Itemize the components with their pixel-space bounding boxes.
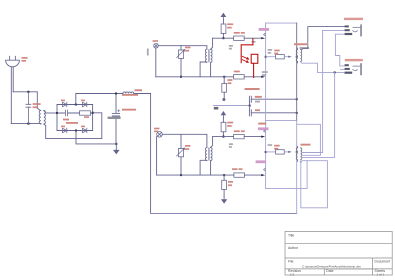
power port up 2 bbox=[221, 112, 225, 118]
transformer T1 bbox=[37, 108, 45, 124]
net label VCC2 bbox=[258, 127, 269, 132]
node caps bbox=[249, 105, 251, 107]
label D2 bbox=[81, 100, 85, 102]
node bridge left bbox=[56, 112, 58, 114]
svg-text:Date: Date bbox=[326, 269, 333, 273]
wire lamp bottom bbox=[155, 48, 157, 77]
wire to R19 bbox=[266, 151, 276, 153]
snubber wire middle bbox=[57, 112, 93, 114]
label R5 bbox=[185, 47, 191, 52]
node T5 feed bbox=[296, 151, 298, 153]
wire Bplus bottom run bbox=[151, 213, 297, 215]
label B1 bbox=[63, 119, 78, 124]
wire T2 prim bottom bbox=[200, 62, 207, 77]
potentiometer R5 bbox=[177, 50, 185, 59]
wire plug neutral down bbox=[12, 67, 14, 92]
wire to R18 bbox=[266, 56, 276, 58]
label R12 bbox=[234, 71, 240, 73]
capacitor C3 snubber bbox=[66, 110, 68, 116]
svg-text:C:\projects\Designs\FishAmp\fi: C:\projects\Designs\FishAmp\fishchamp.ds… bbox=[302, 264, 361, 268]
wire T2 sec top bbox=[211, 38, 213, 49]
wire jack1 tip bbox=[302, 27, 345, 50]
ground GND1 bbox=[114, 144, 119, 154]
inductor L1 bbox=[123, 92, 134, 94]
wire jack2 ring stub bbox=[341, 68, 345, 70]
svg-text:Author: Author bbox=[288, 246, 299, 250]
bridge right rail bbox=[92, 105, 94, 131]
wire R15 to port bbox=[244, 136, 261, 138]
label R2 bbox=[84, 116, 89, 118]
wire lamp2 to transformer bbox=[162, 134, 207, 147]
svg-text:1.0: 1.0 bbox=[290, 272, 295, 276]
node T4 feed bbox=[296, 56, 298, 58]
wire pot bottom bbox=[180, 58, 182, 76]
label C2 bbox=[33, 103, 41, 108]
Bplus right vertical dark bbox=[296, 23, 298, 120]
label R15 bbox=[234, 130, 245, 132]
label R13 bbox=[227, 79, 232, 84]
node top row bbox=[222, 37, 224, 39]
diode D4 bbox=[83, 128, 87, 132]
wire C4 out bbox=[251, 98, 296, 100]
wire T3 sec bottom bbox=[210, 161, 212, 175]
net label VCC1 bbox=[259, 28, 270, 36]
node C1 top bbox=[115, 93, 117, 95]
wire lamp2 bottom bbox=[156, 137, 158, 176]
wire T5 link up bbox=[302, 72, 335, 157]
transformer T2 bbox=[205, 49, 212, 62]
node C4 right bbox=[296, 98, 298, 100]
wire lower loop B bbox=[301, 161, 328, 208]
label R17 bbox=[228, 181, 233, 186]
power port up bbox=[221, 13, 225, 19]
Bplus right vertical lav bbox=[296, 120, 298, 213]
label LP2 bbox=[154, 128, 160, 132]
wire secondary bottom bbox=[44, 124, 102, 139]
resistor R2 snubber bbox=[80, 111, 91, 115]
wire caps link bbox=[249, 101, 251, 110]
port arrow R18 bbox=[288, 56, 292, 58]
resistor R12 bbox=[234, 75, 245, 79]
potentiometer R6 bbox=[177, 148, 185, 157]
label T4 red bbox=[294, 43, 307, 45]
resistor R19 bbox=[276, 150, 285, 154]
ground GND2 bbox=[222, 196, 227, 203]
label T4 grey bbox=[300, 47, 310, 49]
wire R10 leads bbox=[222, 20, 224, 38]
title block bbox=[285, 232, 392, 276]
wire bottom row bbox=[156, 76, 234, 78]
label R14 bbox=[227, 122, 233, 127]
bridge bottom rail bbox=[57, 130, 93, 132]
label C4 bbox=[245, 88, 262, 103]
rail mid junction bbox=[223, 76, 225, 78]
label T5 red bbox=[301, 144, 311, 146]
port arrow bot bbox=[261, 174, 265, 176]
node bridge right bbox=[92, 112, 94, 114]
lamp LP2 bbox=[157, 132, 163, 138]
wire mid row bbox=[213, 136, 234, 138]
wire top to cap/transformer bbox=[13, 92, 37, 108]
label PL1 bbox=[22, 57, 28, 62]
diode D1 bbox=[63, 102, 67, 106]
wire L1 to Bplus rail bbox=[134, 93, 151, 95]
wire R14 leads bbox=[222, 118, 224, 137]
wire R19 out bbox=[284, 151, 288, 153]
resistor R13 bbox=[222, 77, 227, 101]
diode D2 bbox=[83, 102, 87, 106]
wire pot2 top bbox=[180, 134, 182, 148]
label U1 grey bbox=[252, 41, 256, 43]
port arrow R19 bbox=[288, 151, 292, 153]
label C1 ref bbox=[122, 94, 138, 96]
bridge top rail bbox=[57, 104, 93, 106]
capacitor C5 bbox=[249, 110, 251, 116]
net rail U rail bbox=[265, 23, 267, 189]
resistor R18 bbox=[276, 55, 285, 59]
wire gnd mid run bbox=[214, 105, 250, 107]
wire lower loop A bbox=[266, 161, 308, 189]
node pot2 bottom bbox=[180, 174, 182, 176]
node T5 sec bottom bbox=[300, 161, 302, 163]
jack J1 bbox=[344, 18, 363, 37]
wire pot top bbox=[180, 46, 182, 50]
capacitor C4 bbox=[249, 96, 251, 102]
net label VCC3 bbox=[256, 160, 267, 170]
transformer T4 bbox=[296, 48, 302, 63]
wire R12 to port bbox=[244, 76, 261, 78]
node rail2 junction bbox=[223, 174, 225, 176]
node pot bottom bbox=[180, 76, 182, 78]
wire bridge right wrap bbox=[93, 113, 102, 139]
capacitor C1 bbox=[112, 94, 119, 144]
wire secondary top to bridge bbox=[46, 112, 57, 114]
label D1 bbox=[61, 100, 65, 102]
label R16 bbox=[232, 168, 243, 170]
node jack2 sleeve bbox=[334, 72, 336, 74]
wire jack1 sleeve chain bbox=[335, 34, 344, 66]
label D3 bbox=[61, 126, 65, 128]
wire T3 sec top bbox=[211, 137, 213, 148]
transformer T5 bbox=[296, 146, 302, 161]
label D4 bbox=[81, 126, 85, 128]
resistor R16 bbox=[234, 173, 245, 177]
node C5 right bbox=[296, 112, 298, 114]
svg-text:Title: Title bbox=[288, 234, 294, 238]
svg-text:File: File bbox=[288, 260, 294, 264]
wire U rail to right link bbox=[266, 119, 297, 121]
wire rail top run bbox=[266, 22, 297, 24]
label R6 bbox=[185, 145, 191, 150]
node bridge bottom bbox=[75, 130, 77, 132]
wire jack1 ring bbox=[302, 30, 345, 152]
wire C5 out bbox=[251, 112, 296, 114]
label T2 bbox=[229, 45, 233, 50]
port arrow mid2 bbox=[261, 136, 265, 138]
wire R18 out bbox=[284, 56, 288, 58]
resistor R17 bbox=[222, 175, 227, 196]
wire Bplus top bbox=[76, 94, 123, 105]
vactrol U1 selected bbox=[241, 39, 258, 78]
label R10 bbox=[227, 23, 233, 28]
lamp LP1 bbox=[154, 43, 159, 48]
port arrow mid bbox=[261, 76, 265, 78]
wire pot2 bottom bbox=[180, 157, 182, 175]
resistor R14 bbox=[221, 122, 226, 132]
resistor R10 bbox=[221, 24, 226, 34]
wire mid link right bbox=[297, 124, 321, 155]
label L1 bbox=[135, 89, 143, 91]
diode D3 bbox=[63, 128, 67, 132]
label C1 value bbox=[108, 109, 136, 119]
label LP1 bbox=[147, 40, 158, 55]
svg-text:1 of 1: 1 of 1 bbox=[377, 272, 385, 276]
label R19 bbox=[268, 144, 280, 149]
wire R11 to port bbox=[244, 37, 261, 39]
wire T4 sec bottom bbox=[300, 62, 317, 73]
label R18 bbox=[268, 49, 280, 54]
node bridge top bbox=[75, 104, 77, 106]
wire jack2 sleeve bbox=[318, 71, 345, 73]
resistor R15 bbox=[234, 134, 245, 138]
node rail R19 bbox=[265, 151, 267, 153]
wire Bplus vertical rail bbox=[150, 94, 152, 214]
wire bottom row 2 bbox=[157, 174, 234, 176]
wire lamp to transformer bbox=[158, 46, 207, 50]
label T3 bbox=[229, 143, 233, 148]
label U1A grey bbox=[262, 71, 268, 76]
label 0V bbox=[214, 107, 219, 110]
label C5 bbox=[255, 109, 260, 111]
label R11 bbox=[234, 32, 245, 34]
junction bottom cap bbox=[27, 123, 29, 125]
wire plug live down bbox=[10, 67, 12, 124]
transformer T3 bbox=[205, 148, 212, 161]
wire T3 prim bottom bbox=[200, 160, 207, 175]
svg-text:Document: Document bbox=[375, 260, 391, 264]
wire top row bbox=[213, 37, 234, 39]
junction top cap bbox=[27, 91, 29, 93]
label U2A bbox=[258, 123, 266, 125]
node mid row bbox=[222, 136, 224, 138]
port arrow top bbox=[261, 37, 265, 39]
plug PL1 bbox=[6, 56, 20, 66]
bridge left rail bbox=[56, 105, 58, 131]
wire R16 to port bbox=[245, 174, 262, 176]
node gnd bbox=[115, 143, 117, 145]
wire bottom rail bbox=[11, 123, 41, 125]
wire bridge bottom to gnd rail bbox=[76, 131, 116, 144]
node rail R18 bbox=[265, 56, 267, 58]
wire T2 sec bottom bbox=[210, 62, 212, 76]
jack J2 bbox=[345, 59, 363, 75]
resistor R11 bbox=[234, 36, 245, 40]
capacitor C2 bbox=[26, 92, 31, 124]
